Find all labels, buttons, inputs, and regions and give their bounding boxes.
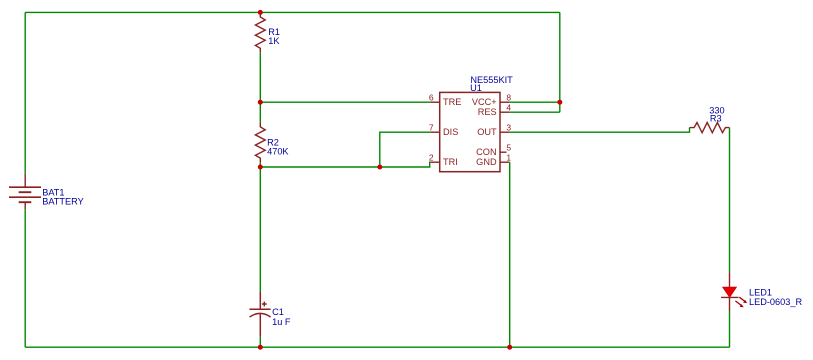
svg-text:6: 6 — [429, 93, 434, 103]
wire LED to bottom rail — [729, 311, 731, 347]
wire pin 3 to R3 — [510, 128, 690, 133]
svg-text:TRE: TRE — [443, 97, 461, 107]
svg-text:TRI: TRI — [443, 157, 458, 167]
wire node B to pin 2 — [260, 162, 430, 167]
wire pin 8 to node D — [510, 101, 560, 103]
svg-text:GND: GND — [476, 157, 497, 167]
svg-text:VCC+: VCC+ — [472, 97, 497, 107]
svg-text:CON: CON — [476, 147, 496, 157]
wire pin 1 to bottom rail — [509, 162, 511, 347]
battery BAT1 — [9, 173, 41, 209]
wire C1 to bottom rail — [259, 337, 261, 348]
LED LED1 — [721, 272, 747, 311]
svg-text:2: 2 — [429, 153, 434, 163]
pin 1 GND — [476, 153, 511, 167]
svg-text:BATTERY: BATTERY — [42, 196, 84, 206]
junction node top R1 — [258, 10, 263, 15]
svg-text:RES: RES — [478, 107, 497, 117]
wire node C to pin 7 — [380, 132, 430, 167]
junction node B — [258, 165, 263, 170]
pin 2 TRI — [429, 153, 458, 167]
wire R3 to LED — [729, 128, 731, 273]
wire left rail upper — [24, 12, 26, 173]
wire node B to C1 — [259, 167, 261, 292]
svg-text:U1: U1 — [470, 83, 482, 93]
svg-text:4: 4 — [506, 103, 511, 113]
capacitor C1 — [249, 292, 270, 337]
pin 4 RES — [478, 103, 512, 117]
op-amp U1 body — [440, 92, 500, 171]
pin 6 TRE — [429, 93, 462, 107]
resistor R1 — [255, 12, 265, 52]
resistor R3 — [690, 123, 730, 133]
resistor R2 — [255, 122, 265, 162]
svg-text:1K: 1K — [268, 36, 280, 46]
svg-text:1u F: 1u F — [272, 317, 291, 327]
svg-text:R3: R3 — [710, 113, 722, 123]
junction node C — [377, 165, 382, 170]
pin 5 CON — [476, 143, 511, 157]
pin 3 OUT — [477, 123, 511, 137]
svg-text:7: 7 — [429, 123, 434, 133]
wire node A to pin 6 — [260, 101, 430, 103]
wire R1 to node A — [259, 52, 261, 102]
svg-text:LED-0603_R: LED-0603_R — [749, 297, 802, 307]
svg-text:3: 3 — [506, 123, 511, 133]
wire node D vertical — [559, 12, 561, 112]
junction node C1 bottom — [258, 345, 263, 350]
svg-text:470K: 470K — [267, 146, 289, 156]
pin 8 VCC+ — [472, 93, 512, 107]
svg-text:OUT: OUT — [477, 127, 497, 137]
wire top rail — [25, 11, 560, 13]
svg-text:DIS: DIS — [443, 127, 458, 137]
wire R2 to node B — [259, 162, 261, 167]
svg-text:C1: C1 — [272, 307, 284, 317]
pin 7 DIS — [429, 123, 458, 137]
svg-text:1: 1 — [506, 153, 511, 163]
junction node A — [258, 100, 263, 105]
junction node D — [557, 100, 562, 105]
wire node A to R2 — [259, 102, 261, 122]
svg-text:8: 8 — [506, 93, 511, 103]
wire pin 4 — [510, 111, 560, 113]
junction node GND bottom — [507, 345, 512, 350]
wire bottom rail — [25, 346, 729, 348]
wire left rail lower — [24, 210, 26, 348]
svg-text:5: 5 — [506, 143, 511, 153]
